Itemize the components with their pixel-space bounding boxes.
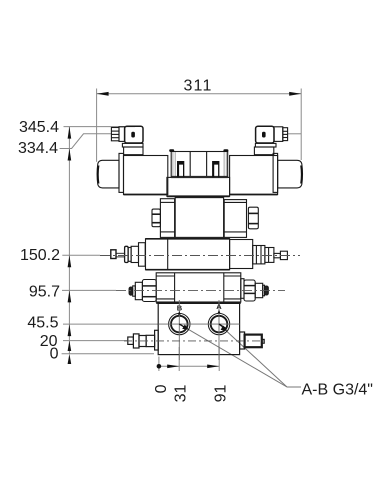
svg-text:95.7: 95.7 — [29, 283, 60, 300]
port B outer circle — [169, 313, 190, 334]
band3 right step1 — [253, 246, 265, 264]
left connector gland — [111, 127, 124, 142]
band2 left hex nut — [152, 209, 160, 227]
left connector screw dot — [131, 132, 135, 138]
port A centerline up arrow — [218, 310, 221, 314]
band4 left bolt tip — [129, 287, 133, 295]
band3 left screw stem — [116, 253, 125, 257]
svg-text:31: 31 — [173, 385, 190, 403]
bottom arrow 31 — [167, 365, 179, 369]
svg-text:A-B G3/4": A-B G3/4" — [302, 381, 373, 398]
left coil bottom thick edge — [124, 194, 168, 196]
right plug flange — [240, 332, 245, 349]
dim 0 line — [62, 353, 154, 355]
dim 334.4 jogged leader — [60, 134, 112, 149]
band4 right flange — [241, 279, 244, 299]
band4 right knob — [265, 286, 269, 295]
svg-text:334.4: 334.4 — [18, 140, 58, 157]
bottom dim extension line x91 — [218, 347, 220, 371]
arrow up 345.4 — [68, 127, 72, 139]
left coil body — [124, 156, 168, 195]
port B vertical centerline — [178, 300, 180, 360]
band2 right boss — [224, 200, 246, 238]
band3 right step1 ring lines — [255, 246, 257, 264]
svg-text:0: 0 — [153, 384, 170, 393]
band4 top inner line left col — [156, 275, 174, 277]
port A inner circle — [211, 316, 228, 333]
right n-shape mark — [212, 161, 219, 177]
leader A arrowhead — [221, 326, 228, 331]
arrow up 150.2 — [68, 255, 72, 267]
left plug body — [146, 335, 155, 346]
dim 311 line — [97, 93, 302, 95]
right gland axis line — [288, 133, 302, 135]
leader horizontal to text — [287, 386, 301, 388]
band3 top thick edge — [146, 238, 230, 240]
leader B thick start — [179, 324, 186, 328]
band4 centerline — [116, 289, 285, 291]
band4 top inner line right col — [224, 275, 241, 277]
band3 bottom thick edge — [146, 269, 230, 271]
port center lines — [158, 300, 239, 360]
band4 right col line — [223, 273, 225, 302]
bottom arrow 91 — [207, 365, 219, 369]
panel bottom thick edge — [171, 176, 228, 178]
right coil body — [230, 156, 278, 195]
leader port B to label — [179, 324, 287, 387]
svg-text:345.4: 345.4 — [19, 119, 59, 136]
band3 left collar2 — [128, 248, 131, 262]
thick leader start inside port B with arrow — [179, 324, 226, 328]
arrows — [68, 92, 302, 369]
band2 top inner line right boss — [224, 201, 246, 203]
band3 right knob — [280, 251, 287, 259]
band4 left col line — [174, 273, 176, 302]
left plug hex — [133, 334, 139, 348]
band2 bottom inner line right boss — [224, 231, 246, 233]
svg-text:0: 0 — [50, 345, 59, 362]
band2 top inner line left boss — [160, 201, 174, 203]
arrow up 45.5 — [68, 324, 72, 336]
left connector body — [125, 126, 143, 143]
right separator plate — [273, 153, 278, 192]
leader A thick start — [219, 324, 226, 328]
band4 bottom inner line left col — [156, 298, 174, 300]
port B centerline up arrow — [178, 311, 181, 315]
band5 main rect — [158, 303, 239, 354]
band3 right section — [230, 240, 253, 269]
corner dot left — [169, 149, 174, 152]
corner dot right — [223, 149, 228, 152]
left end cap — [97, 160, 119, 188]
dim 311 extension line right — [300, 89, 302, 161]
left plug flange — [155, 330, 159, 350]
right coil bottom thick edge — [230, 194, 278, 196]
band4 bottom inner line right col — [224, 298, 241, 300]
arrow up 0 — [68, 354, 72, 364]
dim 311 extension line left — [96, 89, 98, 162]
band3 left collar1 — [125, 246, 129, 262]
right connector body — [256, 126, 274, 143]
band4 left bolt washer — [133, 286, 136, 296]
band3 left screw knob — [111, 250, 116, 259]
central top striped section — [171, 152, 228, 178]
central body bottom thick edge — [167, 195, 230, 197]
right connector screw dot — [262, 132, 266, 138]
bottom dim line — [159, 365, 219, 367]
left cap dark crescent — [97, 166, 99, 184]
left connector base — [122, 143, 143, 155]
arrow 311 right — [289, 92, 301, 96]
arrow up 334.4 — [68, 149, 72, 161]
band4 right cylinder — [255, 283, 263, 297]
left plug collar — [139, 336, 146, 347]
band3 inner v-line — [167, 239, 169, 270]
left ordinate vertical line — [68, 127, 70, 354]
band3 left collar4 — [139, 243, 146, 267]
dim 150.2 line — [62, 254, 100, 256]
right connector base — [254, 143, 276, 155]
central striped panel detail — [173, 152, 226, 177]
bottom dim extension line x0 — [158, 357, 160, 372]
band3 right stem — [274, 253, 281, 257]
panel dark stripe left — [189, 152, 191, 177]
right connector gland — [274, 127, 288, 142]
ports horizontal centerline — [158, 323, 239, 325]
svg-text:150.2: 150.2 — [20, 247, 60, 264]
arrow up 95.7 — [68, 290, 72, 302]
plug axis centerline — [124, 340, 266, 342]
leader B arrowhead — [182, 325, 189, 330]
dim 20 line — [63, 340, 128, 342]
right plug body — [245, 335, 262, 348]
band2 left boss — [160, 199, 174, 238]
panel dark stripe right — [206, 152, 208, 177]
svg-text:45.5: 45.5 — [27, 315, 58, 332]
band3 left collar3 — [131, 246, 138, 262]
stripe lines gray — [172, 152, 174, 177]
band3 right step2 — [265, 248, 274, 263]
band4 left bolt hex — [142, 280, 156, 302]
band4 main rect — [156, 273, 241, 302]
central body — [167, 177, 230, 196]
band2 right hex nut — [248, 207, 258, 229]
port A outer circle — [208, 313, 229, 334]
left separator plate — [119, 153, 124, 192]
bottom dim extension line x31 — [178, 347, 180, 371]
right plug nub — [262, 339, 264, 343]
left plug cap — [128, 337, 134, 344]
band4 right washer — [263, 285, 265, 296]
band2 bottom inner line left boss — [160, 231, 174, 233]
bottom origin dot — [157, 364, 162, 369]
band4 left bolt cylinder — [135, 282, 142, 299]
right end cap — [278, 160, 303, 188]
right cap dark crescent — [300, 166, 302, 184]
dim 45.5 line — [63, 323, 158, 325]
band4 right hex — [244, 280, 255, 301]
svg-text:91: 91 — [213, 385, 230, 403]
port A vertical centerline — [218, 300, 220, 360]
port labels — [177, 302, 223, 313]
band3 centerline — [100, 255, 300, 257]
dim 95.7 line — [62, 289, 116, 291]
band2 central rect — [175, 198, 223, 238]
arrow up 20 — [68, 341, 72, 351]
left n-shape mark — [177, 161, 184, 177]
port B inner circle — [171, 316, 188, 333]
dim 345.4 line — [64, 126, 136, 128]
svg-text:311: 311 — [183, 78, 212, 95]
leader port A to label — [219, 324, 287, 387]
arrow 311 left — [97, 92, 109, 96]
band3 main rect — [146, 239, 230, 270]
band4-band5 joint thick line — [156, 302, 241, 304]
band3 right step2 ring line — [268, 248, 270, 263]
